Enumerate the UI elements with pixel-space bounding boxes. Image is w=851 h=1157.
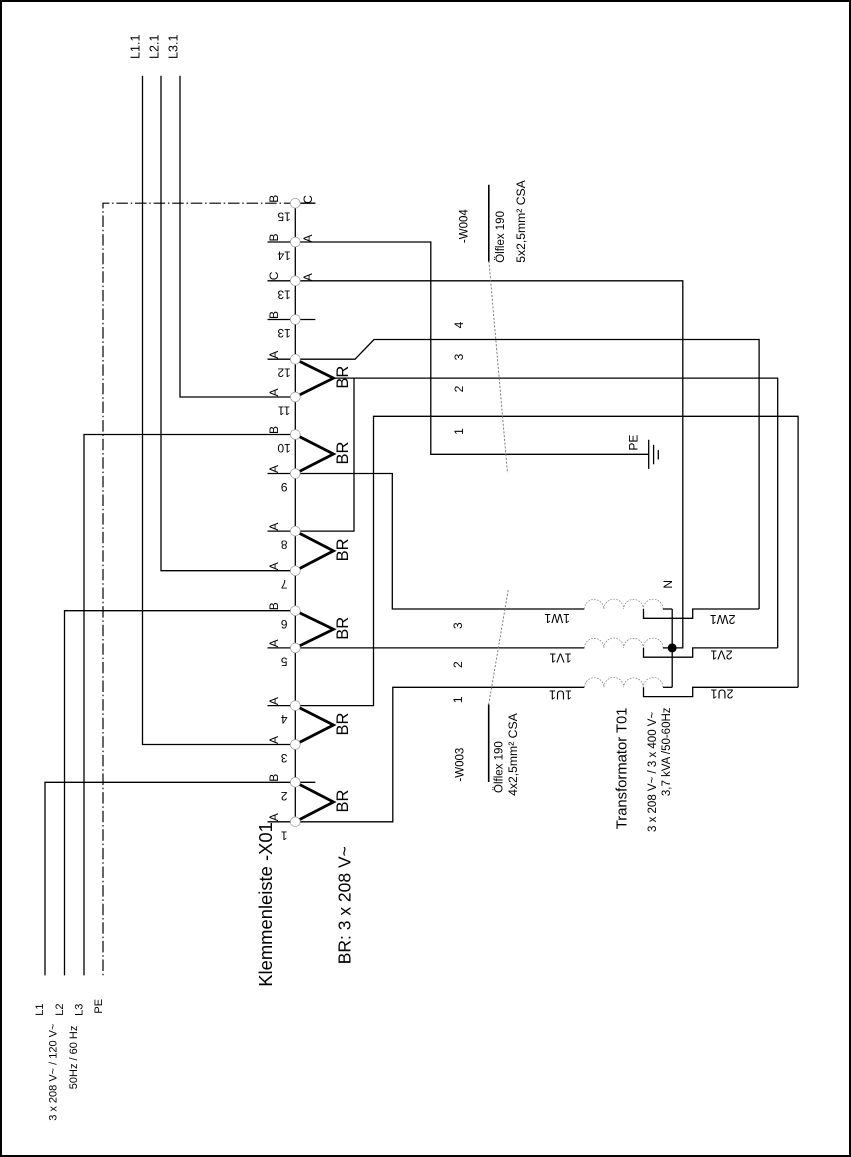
wire L2.1 (from top to terminal 7)	[161, 76, 295, 571]
svg-text:4x2,5mm² CSA: 4x2,5mm² CSA	[506, 712, 520, 795]
terminal -X01:8	[290, 526, 300, 536]
svg-text:50Hz / 60 Hz: 50Hz / 60 Hz	[68, 1026, 80, 1090]
svg-text:B: B	[267, 195, 281, 203]
terminal 2 right stub	[295, 781, 315, 783]
wire BR jumper 12-11 apex to 2V1 (cable -W004 core 3)	[334, 378, 778, 648]
wire terminal 13 to transformer star point N	[295, 281, 683, 648]
winding V tap wire (2V1)	[644, 648, 778, 657]
svg-text:Ölflex 190: Ölflex 190	[495, 211, 507, 263]
terminal -X01:4	[290, 701, 300, 711]
terminal -X01:2	[290, 777, 300, 787]
cable -W003 rule line	[488, 705, 490, 783]
BR jumper terminals 6-5	[295, 611, 333, 648]
svg-text:9: 9	[280, 480, 287, 494]
svg-text:A: A	[301, 234, 315, 242]
svg-text:1U1: 1U1	[549, 688, 572, 702]
svg-text:2U1: 2U1	[710, 687, 733, 701]
svg-text:L2.1: L2.1	[147, 35, 161, 59]
terminal -X01:12	[290, 354, 300, 364]
BR jumper terminals 8-7	[295, 531, 333, 571]
svg-text:B: B	[267, 774, 281, 782]
svg-text:3,7 kVA /50-60Hz: 3,7 kVA /50-60Hz	[661, 707, 673, 796]
terminal 9 left stub	[268, 473, 296, 475]
terminal -X01:15	[290, 198, 300, 208]
transformer T01 winding W (coil)	[584, 599, 663, 609]
svg-text:BR: 3 x 208 V~: BR: 3 x 208 V~	[334, 846, 354, 964]
svg-text:1: 1	[451, 696, 465, 703]
winding U end wire to star	[663, 686, 672, 688]
svg-text:2V1: 2V1	[710, 648, 732, 662]
terminal -X01:13b	[290, 315, 300, 325]
svg-text:B: B	[267, 602, 281, 610]
svg-text:1W1: 1W1	[544, 611, 570, 625]
svg-text:8: 8	[280, 538, 287, 552]
svg-text:1: 1	[280, 828, 287, 842]
svg-text:3: 3	[280, 751, 287, 765]
svg-text:3 x 208 V~ / 120 V~: 3 x 208 V~ / 120 V~	[48, 1024, 60, 1121]
terminal 4 left stub	[268, 705, 296, 707]
svg-text:BR: BR	[334, 789, 352, 812]
transformer star vertical (N)	[671, 609, 673, 687]
terminal 13b right stub	[295, 319, 315, 321]
svg-text:5x2,5mm² CSA: 5x2,5mm² CSA	[514, 179, 528, 262]
svg-text:PE: PE	[626, 435, 640, 451]
svg-text:A: A	[267, 523, 281, 531]
svg-text:2W1: 2W1	[710, 612, 736, 626]
svg-text:BR: BR	[334, 538, 352, 561]
terminal -X01:11	[290, 392, 300, 402]
junction dot at star point	[668, 643, 677, 652]
wire L1 (bottom feed to terminal 2)	[45, 782, 295, 975]
svg-text:A: A	[301, 273, 315, 281]
wire L3.1 (from top to terminal 11)	[180, 76, 295, 397]
svg-text:13: 13	[277, 287, 291, 301]
terminal 13 left stub	[268, 280, 296, 282]
wire terminal 12 to 2W1 (cable -W004 core 4, with 45-degree kink)	[295, 340, 759, 610]
svg-text:15: 15	[277, 210, 291, 224]
svg-text:PE: PE	[93, 999, 105, 1014]
svg-text:C: C	[301, 195, 315, 204]
terminal -X01:5	[290, 643, 300, 653]
ground symbol PE	[649, 440, 659, 469]
wire terminal 9 to 1W1 (cable -W003 core 3)	[295, 474, 584, 610]
svg-text:-W004: -W004	[459, 209, 471, 243]
svg-text:L2: L2	[54, 1004, 66, 1016]
svg-text:A: A	[267, 736, 281, 744]
wire terminal 5 to 1V1 (cable -W003 core 2)	[295, 647, 584, 649]
terminal 8 left stub	[268, 530, 296, 532]
svg-text:A: A	[267, 697, 281, 705]
svg-text:C: C	[267, 271, 281, 280]
terminal 12 left stub	[268, 358, 296, 360]
svg-text:2: 2	[280, 789, 287, 803]
wire L2 (bottom feed to terminal 6)	[65, 611, 296, 976]
svg-text:-W003: -W003	[455, 748, 467, 782]
svg-text:N: N	[661, 580, 675, 589]
svg-text:A: A	[267, 351, 281, 359]
terminal -X01:10	[290, 430, 300, 440]
svg-text:3: 3	[452, 353, 466, 360]
svg-text:B: B	[267, 311, 281, 319]
BR jumper terminals 12-11	[295, 359, 333, 397]
svg-text:A: A	[267, 562, 281, 570]
wire terminal 1 to 1U1 (cable -W003 core 1)	[295, 687, 584, 822]
winding W tap wire (2W1)	[644, 609, 760, 618]
svg-text:L3: L3	[74, 1004, 86, 1016]
svg-text:2: 2	[451, 661, 465, 668]
winding W end wire to star	[663, 608, 672, 610]
svg-text:14: 14	[277, 249, 291, 263]
svg-text:BR: BR	[334, 441, 352, 464]
svg-text:L3.1: L3.1	[167, 35, 181, 59]
svg-text:5: 5	[280, 654, 287, 668]
svg-text:4: 4	[452, 321, 466, 328]
svg-text:BR: BR	[334, 712, 352, 735]
winding U tap wire (2U1)	[644, 687, 799, 696]
svg-text:1: 1	[452, 428, 466, 435]
svg-text:4: 4	[280, 712, 287, 726]
terminal 5 left stub	[268, 647, 296, 649]
terminal 14 left stub	[268, 241, 296, 243]
transformer T01 winding V (coil)	[584, 638, 663, 648]
svg-text:Transformator T01: Transformator T01	[614, 707, 630, 829]
svg-text:L1: L1	[34, 1004, 46, 1016]
transformer T01 winding U (coil)	[584, 677, 663, 687]
wire L1.1 (from top to terminal 3)	[143, 76, 296, 745]
svg-text:A: A	[267, 388, 281, 396]
svg-text:A: A	[267, 465, 281, 473]
svg-text:10: 10	[277, 441, 291, 455]
BR jumper terminals 10-9	[295, 435, 333, 474]
svg-text:A: A	[267, 639, 281, 647]
svg-text:13: 13	[277, 326, 291, 340]
BR jumper terminals 4-3	[295, 706, 333, 745]
winding V end wire to star	[663, 647, 672, 649]
wire L3 (bottom feed to terminal 10)	[84, 435, 295, 976]
svg-text:B: B	[267, 426, 281, 434]
wire terminal 4 to 2U1 (cable -W004 core 2)	[295, 416, 798, 705]
terminal strip -X01 rail	[294, 203, 296, 822]
svg-text:Klemmenleiste -X01: Klemmenleiste -X01	[255, 822, 276, 987]
cable -W004 diagonal	[489, 261, 508, 473]
svg-text:BR: BR	[334, 617, 352, 640]
svg-text:3: 3	[451, 622, 465, 629]
wire terminal 14 to PE ground (cable -W004 core 1)	[295, 242, 648, 454]
svg-text:1V1: 1V1	[549, 651, 571, 665]
terminal -X01:14	[290, 237, 300, 247]
svg-text:3 x 208 V~ / 3 x 400 V~: 3 x 208 V~ / 3 x 400 V~	[647, 712, 659, 832]
BR jumper terminals 2-1	[295, 782, 333, 822]
svg-text:12: 12	[277, 366, 291, 380]
svg-text:11: 11	[278, 404, 291, 418]
terminal -X01:7	[290, 566, 300, 576]
svg-text:B: B	[267, 233, 281, 241]
terminal 1 left stub	[268, 821, 296, 823]
terminal -X01:6	[290, 606, 300, 616]
svg-text:L1.1: L1.1	[128, 35, 142, 59]
terminal 13b left stub	[268, 319, 296, 321]
cable -W004 rule line	[488, 185, 490, 262]
wire branch from node (354,378) down to terminal 8	[295, 378, 354, 531]
svg-text:2: 2	[452, 385, 466, 392]
terminal -X01:1	[290, 817, 300, 827]
svg-text:6: 6	[280, 617, 287, 631]
terminal 15 right stub	[295, 202, 315, 204]
wire PE dash-dot (bottom feed to terminal 15)	[103, 203, 295, 975]
svg-text:A: A	[267, 813, 281, 821]
svg-text:Ölflex 190: Ölflex 190	[494, 741, 506, 793]
svg-text:BR: BR	[334, 366, 352, 389]
terminal -X01:3	[290, 740, 300, 750]
svg-text:7: 7	[280, 577, 287, 591]
terminal -X01:13	[290, 276, 300, 286]
cable -W003 diagonal	[489, 590, 509, 704]
terminal -X01:9	[290, 469, 300, 479]
